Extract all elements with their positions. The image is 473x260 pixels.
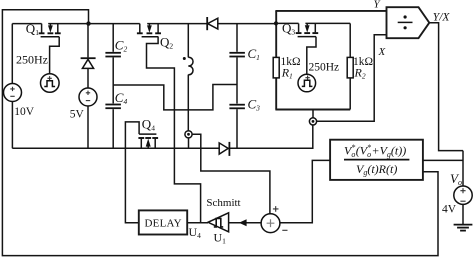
wire link C2C4 node to C1C3 node bbox=[113, 85, 237, 110]
wire divider output down to Vo node bbox=[429, 23, 463, 151]
terminal T1 (circle-dot) bbox=[309, 118, 316, 125]
wire DELAY right to Schmitt bbox=[187, 222, 208, 224]
wire top rail segment 10V to Q1 drain bbox=[12, 23, 41, 25]
wire top rail segment Q2 arrow to diode D2 cathode bbox=[147, 23, 207, 25]
transistor Q3 bbox=[296, 23, 319, 36]
node junction dot at top rail x=88.5 bbox=[86, 21, 90, 25]
Schmitt hysteresis glyph bbox=[214, 218, 223, 227]
source 4V bbox=[454, 186, 472, 204]
wire T2 right dogleg down to summer top bbox=[192, 134, 270, 213]
box top edge continuing to divider Y input bbox=[275, 10, 386, 12]
wire top rail segment diode D2 anode to box bbox=[218, 23, 276, 25]
wire T1 right to X input riser bbox=[316, 35, 386, 122]
wire Q1 gate zigzag to pulse source bbox=[50, 37, 60, 74]
svg-text:X: X bbox=[378, 46, 387, 58]
box top-right: left edge with junction dot bbox=[275, 11, 277, 58]
wire T2 to bottom rail bbox=[188, 138, 190, 149]
terminal T2 (circle-dot) bbox=[185, 131, 192, 138]
diode D3 on bottom rail, pointing right bbox=[219, 142, 229, 156]
capacitor C4 bbox=[105, 105, 121, 149]
wire Q4 gate zigzag to DELAY output bbox=[125, 122, 139, 223]
wire box bottom to terminal T1 bbox=[312, 110, 314, 119]
inductor L1 coil bbox=[188, 57, 193, 75]
transistor Q2 bbox=[137, 24, 161, 37]
svg-text:4V: 4V bbox=[442, 203, 457, 215]
inductor L1 column from rail bbox=[187, 24, 189, 58]
source 10V bbox=[4, 24, 22, 149]
DELAY box bbox=[139, 210, 187, 234]
wire formula box left to summer right input bbox=[280, 160, 330, 222]
Schmitt trigger U1 triangle bbox=[208, 213, 229, 232]
resistor R2 bbox=[349, 23, 351, 57]
svg-text:Vg(t)R(t): Vg(t)R(t) bbox=[356, 162, 397, 177]
wire bottom rail right segment, up to terminal T1 bbox=[229, 125, 312, 149]
label - at summer right input bbox=[282, 229, 287, 231]
wire 5V branch top bbox=[87, 24, 89, 58]
wire Schmitt input from summer with arrow bbox=[229, 222, 261, 224]
diode D1 above 5V source, pointing up bbox=[81, 58, 96, 88]
transistor Q1 bbox=[39, 24, 61, 37]
svg-text:250Hz: 250Hz bbox=[309, 61, 340, 73]
pulse source V2 250Hz circle bbox=[298, 74, 316, 92]
wire bottom rail left segment bbox=[12, 147, 219, 149]
wire Q2 gate zigzag down to Schmitt output riser bbox=[147, 37, 201, 223]
svg-text:250Hz: 250Hz bbox=[16, 53, 48, 67]
wire Vo column down to 4V source bbox=[462, 151, 464, 186]
transistor Q4 (mirrored, on bottom rail) bbox=[138, 134, 158, 148]
svg-text:10V: 10V bbox=[14, 106, 35, 118]
diode D2 on top rail, pointing left bbox=[207, 17, 218, 30]
formula fraction bar bbox=[344, 159, 409, 161]
wire Q3 gate zigzag to pulse source 2 bbox=[307, 37, 316, 75]
wire top rail segment Q1 source to Q2 drain bbox=[48, 23, 140, 25]
capacitor C2 bbox=[105, 24, 121, 104]
resistor R1 bbox=[273, 57, 279, 78]
box bottom edge bbox=[275, 109, 350, 111]
label + at summer top input bbox=[273, 206, 279, 212]
arrowhead pointing left on wire bbox=[239, 219, 247, 226]
capacitor C1 bbox=[229, 24, 245, 104]
divider block bbox=[387, 7, 430, 38]
source 5V bbox=[79, 88, 97, 148]
svg-text:Y/X: Y/X bbox=[433, 12, 451, 24]
svg-text:Vo*(Vo*+Vg(t)): Vo*(Vo*+Vg(t)) bbox=[344, 143, 406, 159]
svg-text:5V: 5V bbox=[70, 108, 85, 120]
summer (comparator) circle bbox=[261, 214, 280, 233]
inductor polarity dot bbox=[183, 57, 186, 60]
ground bbox=[454, 204, 473, 230]
svg-text:Schmitt: Schmitt bbox=[206, 197, 240, 209]
svg-text:DELAY: DELAY bbox=[145, 218, 182, 230]
formula box bbox=[330, 140, 423, 180]
wire internal rail of box (Q3 row) bbox=[276, 22, 298, 24]
wire inductor to terminal T2 bbox=[187, 75, 189, 131]
pulse source V1 250Hz circle bbox=[41, 74, 60, 93]
capacitor C3 bbox=[229, 105, 245, 149]
wire formula box right to Vo column bbox=[423, 159, 463, 161]
